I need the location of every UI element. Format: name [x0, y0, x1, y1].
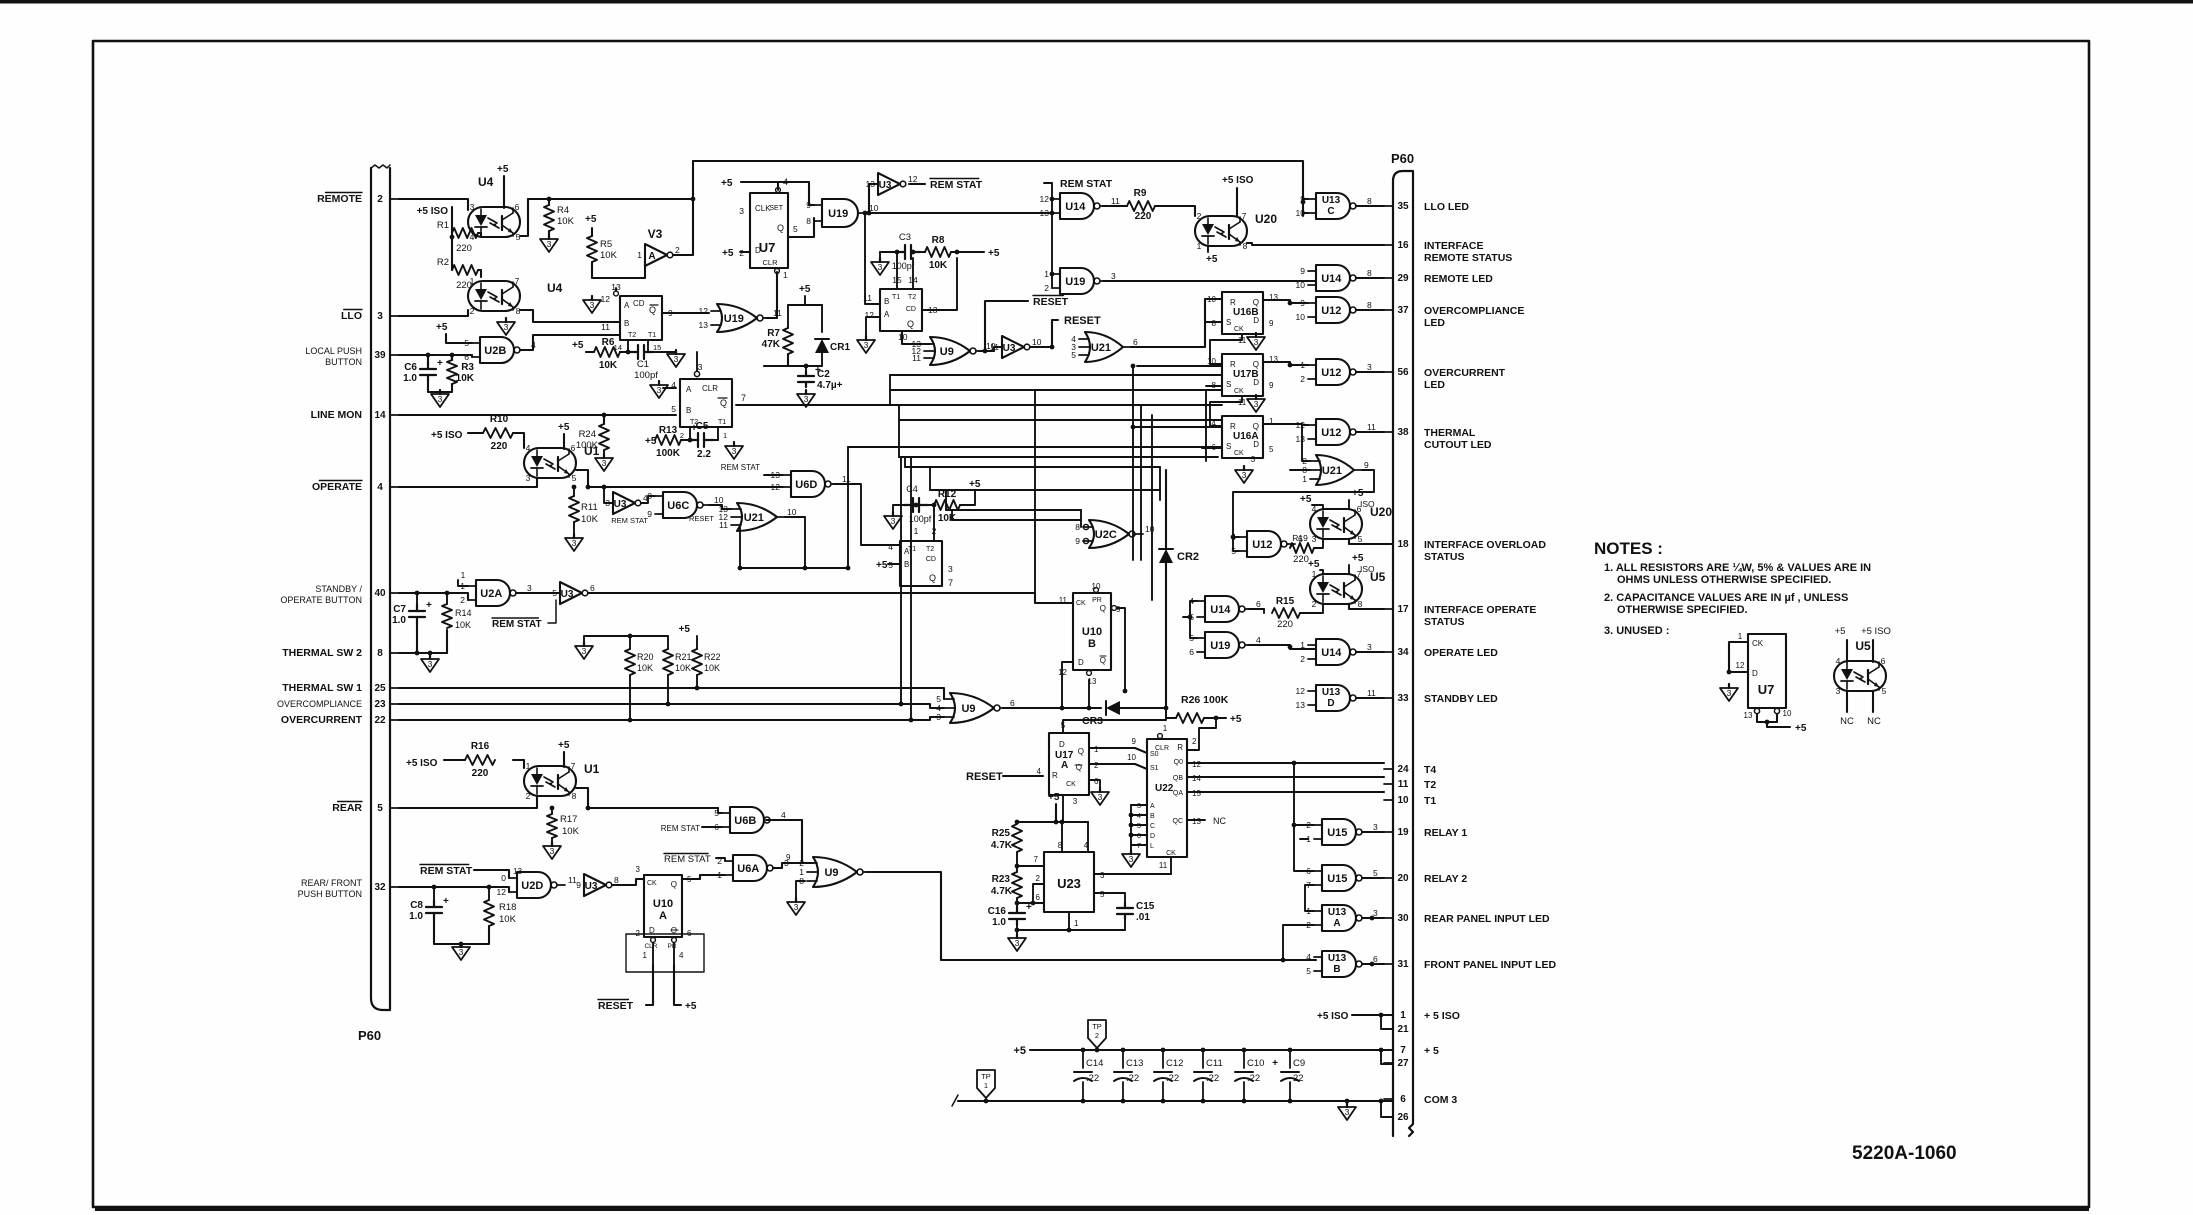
- svg-text:13: 13: [1296, 700, 1306, 710]
- svg-text:9: 9: [1300, 266, 1305, 276]
- svg-text:CUTOUT LED: CUTOUT LED: [1424, 439, 1492, 451]
- svg-text:10: 10: [787, 507, 797, 517]
- svg-text:12: 12: [1736, 661, 1745, 670]
- wire u13c out pin35: [1356, 205, 1384, 207]
- P60 pin 11 T2: [1384, 779, 1436, 791]
- wire u17a q to u22 s0: [1089, 748, 1147, 753]
- svg-text:OPERATE LED: OPERATE LED: [1424, 647, 1498, 659]
- P60 pin 27: [1384, 1058, 1409, 1069]
- ground: [884, 512, 902, 529]
- svg-text:A: A: [1333, 918, 1340, 929]
- svg-text:8: 8: [1367, 300, 1372, 310]
- junction: [1067, 928, 1072, 933]
- wire +5 ISO to R1: [451, 207, 453, 233]
- svg-text:OTHERWISE SPECIFIED.: OTHERWISE SPECIFIED.: [1617, 604, 1748, 616]
- P60 pin 56 OVERCURRENT: [1384, 367, 1506, 391]
- svg-text:CD: CD: [906, 306, 916, 313]
- svg-text:35: 35: [1397, 201, 1409, 212]
- power +5: [722, 248, 734, 259]
- svg-text:+5: +5: [558, 740, 570, 751]
- svg-text:U23: U23: [1057, 876, 1081, 891]
- svg-text:B: B: [904, 560, 909, 569]
- wire REMOTE to U4: [399, 199, 468, 210]
- svg-text:13: 13: [1040, 208, 1050, 218]
- svg-text:11: 11: [1111, 196, 1120, 206]
- svg-text:1: 1: [1163, 724, 1168, 733]
- wire U1 out rear net: [576, 788, 588, 808]
- junction: [932, 503, 937, 508]
- junction: [1050, 345, 1055, 350]
- svg-text:10K: 10K: [938, 513, 957, 524]
- junction: [899, 702, 904, 707]
- svg-text:T1: T1: [1424, 795, 1436, 807]
- svg-text:3: 3: [1367, 362, 1372, 372]
- svg-text:220: 220: [1135, 211, 1152, 222]
- svg-text:1: 1: [783, 270, 788, 280]
- wire r9 to u20: [1155, 206, 1195, 216]
- wire U7 bottom pins: [1754, 708, 1759, 713]
- svg-text:THERMAL SW 2: THERMAL SW 2: [282, 647, 362, 659]
- junction: [914, 503, 919, 508]
- P60 pin 3 LLO: [341, 310, 399, 323]
- svg-text:Q: Q: [671, 880, 677, 889]
- wire U21 out down: [785, 517, 805, 568]
- P60 pin 2 REMOTE: [317, 193, 399, 206]
- junction: [626, 350, 631, 355]
- svg-text:12: 12: [1296, 686, 1306, 696]
- wire u16a q to u12c: [1263, 424, 1308, 425]
- svg-text:LLO LED: LLO LED: [1424, 201, 1469, 213]
- junction: [1242, 1048, 1247, 1053]
- wire gnd to U11A A: [659, 380, 676, 382]
- svg-text:+5: +5: [1795, 723, 1807, 734]
- wire u17a ck to rail: [1062, 795, 1064, 822]
- power +5: [1230, 714, 1242, 725]
- wire U9 to U3: [979, 350, 994, 352]
- wire bus run: [899, 419, 1222, 421]
- svg-text:2: 2: [675, 245, 680, 255]
- gate U9 bot: [799, 857, 871, 887]
- svg-text:R21: R21: [675, 652, 692, 662]
- ground: [1122, 850, 1140, 867]
- wire C6 R3 to gnd: [428, 382, 452, 392]
- wire drop to U3a: [604, 487, 613, 503]
- junction: [1054, 820, 1059, 825]
- ground: [583, 296, 601, 313]
- wire tp2 stem: [1096, 1048, 1098, 1050]
- svg-text:CK: CK: [1234, 326, 1244, 333]
- svg-text:9: 9: [1075, 536, 1080, 546]
- IC U23: [1044, 852, 1094, 912]
- IC U8B: [620, 296, 662, 340]
- wire U8B Q to U19: [662, 312, 709, 314]
- wire u13c pin bracket: [1303, 198, 1308, 200]
- svg-text:2: 2: [1306, 920, 1311, 930]
- junction: [1015, 928, 1020, 933]
- svg-text:Q: Q: [649, 305, 656, 315]
- IC U16B: [1222, 292, 1263, 334]
- wire c8 r18 gnd: [434, 920, 489, 944]
- P60 pin 14 LINE MON: [311, 409, 399, 421]
- junction: [602, 485, 607, 490]
- svg-text:1.0: 1.0: [403, 373, 417, 384]
- svg-text:14: 14: [1192, 774, 1201, 783]
- svg-text:+5: +5: [721, 178, 733, 189]
- power +5: [1352, 553, 1364, 564]
- svg-text:7: 7: [571, 761, 576, 771]
- optocoupler U1 top: [524, 443, 600, 483]
- svg-text:4: 4: [377, 482, 383, 493]
- svg-text:S: S: [1226, 380, 1231, 389]
- svg-text:NC: NC: [1213, 816, 1226, 826]
- wire u12 out pin37: [1356, 309, 1384, 311]
- svg-text:A: A: [648, 251, 655, 262]
- svg-text:21: 21: [1397, 1024, 1409, 1035]
- svg-text:12: 12: [771, 482, 781, 492]
- svg-text:T2: T2: [926, 546, 934, 553]
- svg-text:2: 2: [526, 791, 531, 801]
- wire bus run: [890, 389, 1222, 391]
- svg-text:STATUS: STATUS: [1424, 616, 1464, 628]
- wire U11A clk top: [694, 371, 699, 376]
- svg-text:U3: U3: [879, 180, 892, 191]
- wire u14io u19op shared input: [1190, 601, 1197, 638]
- svg-text:3: 3: [1727, 688, 1732, 698]
- svg-text:U19: U19: [828, 208, 848, 220]
- P60 pin 21: [1384, 1024, 1409, 1035]
- svg-text:3: 3: [1073, 797, 1078, 806]
- svg-text:R22: R22: [704, 652, 721, 662]
- wire bus run: [736, 404, 1222, 406]
- junction: [911, 250, 916, 255]
- svg-text:5: 5: [671, 404, 676, 414]
- svg-text:U19: U19: [1065, 276, 1085, 288]
- wire top long wire to u13c: [693, 161, 1303, 216]
- svg-text:100K: 100K: [656, 448, 681, 459]
- svg-text:3. UNUSED :: 3. UNUSED :: [1604, 625, 1669, 637]
- wire bus run: [848, 446, 1222, 448]
- svg-text:C11: C11: [1206, 1058, 1223, 1069]
- ground: [667, 350, 685, 367]
- power +5 ISO: [1222, 175, 1254, 186]
- svg-text:C: C: [1327, 206, 1334, 217]
- svg-text:3: 3: [377, 311, 383, 322]
- svg-text:27: 27: [1397, 1058, 1409, 1069]
- wire bus run v: [1151, 415, 1153, 600]
- top scan edge: [0, 0, 2193, 4]
- wire c15 bottom: [1124, 919, 1126, 930]
- P60 pin 6 COM 3: [1384, 1094, 1457, 1106]
- svg-text:U10: U10: [653, 898, 673, 910]
- svg-text:NOTES :: NOTES :: [1594, 539, 1663, 558]
- wire +5 rail: [1030, 1049, 1393, 1051]
- P60 pin 25 THERMAL SW 1: [282, 682, 399, 694]
- wire R5 to V3: [592, 262, 645, 278]
- svg-text:15: 15: [653, 343, 661, 352]
- svg-text:B: B: [1150, 813, 1155, 820]
- wire u16a r feed: [1133, 426, 1222, 428]
- svg-text:3: 3: [590, 300, 595, 310]
- svg-text:32: 32: [374, 882, 386, 893]
- junction: [983, 349, 988, 354]
- svg-text:4: 4: [1306, 952, 1311, 962]
- svg-text:7: 7: [1400, 1045, 1406, 1056]
- wire u12d r19: [1289, 544, 1291, 548]
- wire u8a t pins: [915, 505, 917, 541]
- svg-text:3: 3: [864, 340, 869, 350]
- svg-text:U3: U3: [585, 881, 598, 892]
- svg-text:.22: .22: [1247, 1073, 1260, 1084]
- svg-text:STANDBY /: STANDBY /: [315, 584, 362, 594]
- inverter U3 mid: [990, 336, 1042, 358]
- ground: [497, 318, 515, 335]
- svg-text:9: 9: [1116, 605, 1121, 614]
- svg-text:10: 10: [1145, 524, 1155, 534]
- svg-text:4: 4: [1231, 532, 1236, 542]
- wire OPERATE to U1: [399, 478, 537, 487]
- wire bus run v: [910, 457, 912, 720]
- junction: [1288, 1099, 1293, 1104]
- wire to U3 inv: [869, 184, 878, 213]
- svg-text:3: 3: [1345, 1107, 1350, 1117]
- svg-text:14: 14: [374, 410, 386, 421]
- svg-text:6: 6: [515, 202, 520, 212]
- wire U5 unused pins: [1846, 640, 1848, 662]
- svg-text:CK: CK: [647, 880, 657, 887]
- junction: [1288, 301, 1293, 306]
- svg-text:2: 2: [1197, 211, 1202, 221]
- wire +5 U2B: [446, 334, 472, 343]
- junction: [688, 438, 693, 443]
- wire r17: [551, 808, 553, 814]
- svg-text:R10: R10: [490, 414, 509, 425]
- resistor R17: [547, 814, 557, 838]
- wire +5 U1: [563, 434, 565, 449]
- wire r23 c16 junction: [1016, 898, 1018, 908]
- junction: [1087, 706, 1092, 711]
- svg-text:37: 37: [1397, 305, 1409, 316]
- svg-text:12: 12: [908, 174, 918, 184]
- svg-text:12: 12: [601, 294, 611, 304]
- wire U8B CD: [615, 288, 617, 291]
- svg-text:1: 1: [1074, 919, 1079, 928]
- wire com3 left squiggle: [952, 1095, 958, 1106]
- svg-text:R11: R11: [581, 502, 598, 513]
- svg-text:U6D: U6D: [795, 479, 817, 491]
- svg-text:5: 5: [377, 803, 383, 814]
- IC U11A: [680, 379, 732, 427]
- junction: [1727, 670, 1732, 675]
- wire r19 u20: [1314, 539, 1323, 548]
- wire u3 to u10a: [612, 879, 644, 885]
- svg-text:LED: LED: [1424, 317, 1445, 329]
- wire U2B out: [520, 335, 620, 350]
- wire u10b d loop: [1062, 662, 1073, 708]
- optocoupler U20 mid: [1310, 504, 1392, 544]
- svg-text:U2C: U2C: [1095, 529, 1117, 541]
- svg-text:6: 6: [1400, 1094, 1406, 1105]
- wire bus run v: [1034, 390, 1036, 593]
- svg-text:8: 8: [1058, 841, 1063, 850]
- wire R10: [468, 432, 483, 434]
- svg-text:40: 40: [374, 588, 386, 599]
- gate U19 and: [806, 199, 878, 227]
- svg-text:2: 2: [1300, 654, 1305, 664]
- resistor R16: [465, 741, 495, 779]
- wire u21r wires: [1302, 424, 1310, 461]
- svg-text:C7: C7: [393, 604, 406, 615]
- svg-text:13: 13: [1192, 817, 1201, 826]
- IC U11B: [880, 289, 922, 331]
- svg-text:CK: CK: [1076, 600, 1086, 607]
- svg-text:6: 6: [590, 583, 595, 593]
- gate U12 d: [1231, 531, 1303, 557]
- resistor R6: [594, 337, 620, 371]
- wire U11B out to U9: [902, 331, 930, 344]
- wire u10b clr down: [1088, 680, 1090, 708]
- svg-text:Q: Q: [777, 223, 784, 233]
- svg-text:OVERCURRENT: OVERCURRENT: [281, 714, 363, 726]
- wire mid tangle h1: [902, 344, 1222, 390]
- svg-text:U12: U12: [1321, 367, 1341, 379]
- svg-text:38: 38: [1397, 427, 1409, 438]
- junction: [432, 885, 437, 890]
- wire u17b r feed: [1137, 365, 1222, 367]
- svg-text:2: 2: [1300, 374, 1305, 384]
- svg-text:CR2: CR2: [1177, 551, 1199, 563]
- svg-text:R6: R6: [602, 337, 615, 348]
- wire pin32 to U2D: [399, 887, 509, 892]
- ground: [575, 642, 593, 659]
- gate U15 b: [1306, 865, 1378, 891]
- svg-text:R13: R13: [659, 425, 678, 436]
- svg-text:5: 5: [1306, 966, 1311, 976]
- svg-text:5: 5: [1269, 445, 1274, 454]
- wire u16a s: [1202, 447, 1222, 449]
- resistor R14: [442, 604, 452, 628]
- svg-text:B: B: [1333, 964, 1340, 975]
- wire +5 D: [740, 251, 750, 253]
- power +5: [572, 340, 584, 351]
- wire u13a out pin30: [1362, 917, 1384, 919]
- IC U8A: [900, 541, 942, 586]
- svg-text:2: 2: [377, 194, 383, 205]
- svg-text:13: 13: [1744, 711, 1753, 720]
- svg-text:D: D: [1078, 658, 1084, 667]
- capacitor C7: [392, 600, 432, 626]
- test point TP1: [977, 1070, 995, 1098]
- svg-text:2: 2: [470, 306, 475, 316]
- svg-text:T4: T4: [1424, 764, 1436, 776]
- svg-text:R17: R17: [560, 814, 577, 825]
- power +5: [1206, 254, 1218, 265]
- svg-text:6: 6: [1133, 337, 1138, 347]
- P60 pin 16 INTERFACE: [1384, 240, 1512, 264]
- junction: [1129, 813, 1134, 818]
- svg-text:REM STAT: REM STAT: [721, 463, 760, 472]
- svg-text:CR3: CR3: [1082, 715, 1103, 727]
- svg-text:220: 220: [1293, 554, 1309, 565]
- ground: [725, 442, 743, 459]
- svg-text:RELAY 1: RELAY 1: [1424, 827, 1467, 839]
- svg-text:10: 10: [1296, 280, 1306, 290]
- svg-text:12: 12: [497, 887, 507, 897]
- svg-text:LLO: LLO: [341, 310, 362, 322]
- junction: [1370, 916, 1375, 921]
- svg-text:22: 22: [374, 715, 386, 726]
- power +5: [969, 479, 981, 490]
- svg-text:3: 3: [674, 354, 679, 364]
- P60 pin 4 OPERATE: [312, 481, 399, 494]
- svg-text:5: 5: [1882, 686, 1887, 696]
- junction: [1015, 820, 1020, 825]
- wire rem stat run 2: [1052, 198, 1103, 200]
- svg-text:3: 3: [1312, 534, 1317, 544]
- junction: [1050, 197, 1055, 202]
- junction: [586, 485, 591, 490]
- ground: [1008, 934, 1026, 951]
- svg-text:3: 3: [804, 394, 809, 404]
- wire u5 out pin17: [1349, 604, 1384, 609]
- wire r20 bottom: [629, 675, 631, 720]
- svg-text:D: D: [1150, 833, 1155, 840]
- svg-text:A: A: [624, 301, 630, 310]
- svg-text:ISO: ISO: [1360, 564, 1375, 574]
- svg-text:Q: Q: [1076, 763, 1082, 772]
- junction: [1031, 901, 1036, 906]
- svg-text:29: 29: [1397, 273, 1409, 284]
- P60 pin 23 OVERCOMPLIANCE: [277, 699, 399, 710]
- svg-text:C4: C4: [906, 484, 918, 494]
- svg-text:+5: +5: [1352, 488, 1364, 499]
- svg-text:31: 31: [1397, 959, 1409, 970]
- svg-text:U6A: U6A: [737, 863, 759, 875]
- svg-text:U15: U15: [1327, 873, 1347, 885]
- wire thermal sw2 junction: [399, 652, 447, 654]
- gate U13B: [1306, 951, 1378, 977]
- svg-text:U10: U10: [1082, 626, 1102, 638]
- svg-text:A: A: [1150, 803, 1155, 810]
- wire R5 top: [591, 228, 593, 236]
- optocoupler U5 io: [1310, 569, 1386, 609]
- wire REMOTE to U7 CLK: [693, 198, 750, 200]
- svg-text:1: 1: [914, 526, 919, 536]
- svg-text:CLR: CLR: [762, 258, 778, 267]
- svg-text:3: 3: [527, 583, 532, 593]
- capacitor C1: [629, 345, 653, 359]
- power +5: [1300, 494, 1312, 505]
- junction: [1129, 833, 1134, 838]
- svg-text:STATUS: STATUS: [1424, 551, 1464, 563]
- wire u16 u17 clk links: [1210, 334, 1242, 364]
- svg-text:8: 8: [1075, 522, 1080, 532]
- svg-text:10: 10: [1783, 709, 1792, 718]
- resistor R11: [569, 496, 579, 522]
- gate U14 opl: [1300, 639, 1372, 665]
- svg-text:+5: +5: [722, 248, 734, 259]
- svg-text:4: 4: [1084, 841, 1089, 850]
- svg-text:3: 3: [572, 538, 577, 548]
- svg-text:.22: .22: [1206, 1073, 1219, 1084]
- svg-text:U13: U13: [1328, 907, 1347, 918]
- svg-text:0: 0: [501, 873, 506, 883]
- ground: [1720, 684, 1738, 701]
- svg-text:9: 9: [1269, 381, 1274, 390]
- diode CR1: [815, 339, 850, 353]
- resistor R4: [544, 205, 554, 231]
- svg-text:8: 8: [377, 648, 383, 659]
- svg-text:RELAY 2: RELAY 2: [1424, 873, 1467, 885]
